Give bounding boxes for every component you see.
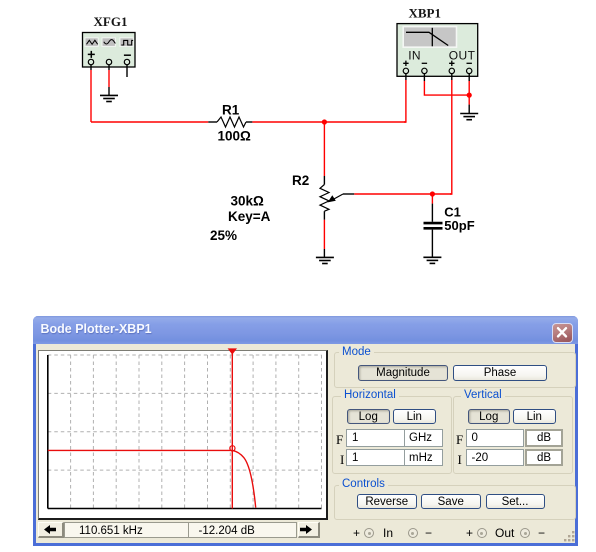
grid dashed horizontals (48, 355, 322, 470)
label I vertical (458, 452, 462, 468)
wire node to R1 (91, 121, 208, 123)
capacitor C1 (424, 223, 443, 257)
field I value horizontal (346, 449, 405, 467)
svg-text:R2: R2 (292, 173, 309, 188)
cursor line (231, 349, 233, 509)
groupbox Mode (334, 352, 576, 388)
axis bottom (48, 508, 322, 510)
title bar (33, 316, 578, 344)
circuit schematic (0, 0, 596, 312)
junction node wiper/C1 (430, 191, 435, 196)
status field gain (189, 522, 297, 539)
button Lin horizontal (393, 409, 436, 425)
button Lin vertical (513, 409, 556, 425)
bode plotter XBP1 (397, 24, 478, 77)
status right arrow button (298, 522, 320, 538)
svg-text:30kΩ: 30kΩ (231, 194, 265, 209)
svg-text:50pF: 50pF (444, 218, 474, 233)
bode magnitude curve (48, 450, 256, 507)
field I unit mHz (404, 449, 443, 467)
field F value vertical (466, 429, 525, 447)
close button (552, 323, 573, 343)
ground (XFG1) (100, 95, 118, 101)
junction node OUT- (467, 93, 472, 98)
grid dashed verticals (71, 355, 322, 509)
field F value horizontal (346, 429, 405, 447)
cursor point marker (230, 446, 235, 451)
svg-text:100Ω: 100Ω (218, 129, 252, 144)
button Magnitude (pressed) (358, 365, 448, 382)
button Save (421, 494, 481, 510)
label I horizontal (340, 452, 344, 468)
ground (C1) (423, 257, 441, 263)
svg-text:Key=A: Key=A (228, 209, 271, 224)
wire R2 wiper to OUT+ (354, 193, 452, 195)
svg-text:XFG1: XFG1 (94, 14, 128, 29)
axis left (47, 355, 49, 509)
terminal indicators row (333, 525, 573, 541)
wire R1 to XBP1 IN+ (252, 121, 406, 123)
cursor triangle marker (228, 348, 237, 354)
function generator XFG1 (83, 33, 136, 68)
wire XFG1 minus stub (126, 65, 128, 77)
potentiometer R2 (320, 185, 354, 212)
resize grip (564, 531, 576, 543)
svg-text:IN: IN (408, 48, 421, 62)
field I unit dB (525, 449, 563, 467)
field F unit GHz (404, 429, 443, 447)
field F unit dB (525, 429, 563, 447)
wire XFG1 common to ground (108, 65, 110, 70)
wire junction down to R2 (323, 122, 325, 176)
button Log vertical (pressed) (468, 409, 511, 425)
groupbox Controls (334, 485, 576, 520)
wire XBP1 OUT- down (468, 74, 470, 81)
status left arrow button (38, 522, 64, 538)
wire junction to C1 (431, 194, 433, 204)
wire XBP1 IN- to OUT- column (423, 74, 425, 81)
graph panel (38, 350, 328, 520)
wire XBP1 OUT+ down to wiper (451, 74, 453, 80)
button Log horizontal (pressed) (347, 409, 390, 425)
label F vertical (456, 432, 463, 448)
svg-text:25%: 25% (210, 228, 237, 243)
groupbox Vertical (453, 396, 574, 474)
svg-text:XBP1: XBP1 (409, 6, 442, 21)
label F horizontal (336, 432, 343, 448)
groupbox Horizontal (332, 396, 452, 474)
ground (R2) (316, 257, 334, 263)
junction node R1/R2 (322, 119, 327, 124)
status field frequency (64, 522, 189, 539)
wire R2 bottom to ground (323, 211, 325, 220)
svg-text:R1: R1 (222, 102, 240, 117)
svg-text:OUT: OUT (449, 48, 476, 62)
button Reverse (357, 494, 417, 510)
resistor R1 (208, 117, 252, 127)
button Phase (453, 365, 547, 382)
ground (XBP1) (460, 114, 478, 120)
Bode Plotter dialog window (33, 316, 578, 546)
button Set... (486, 494, 545, 510)
field I value vertical (466, 449, 525, 467)
wire XFG1 plus to node (90, 65, 92, 70)
wire XBP1 IN+ down to node (405, 74, 407, 80)
